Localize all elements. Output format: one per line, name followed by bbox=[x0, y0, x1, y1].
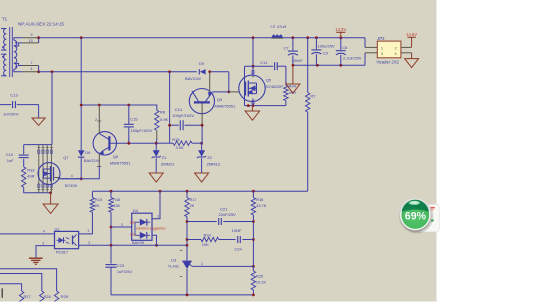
svg-text:C11: C11 bbox=[260, 60, 268, 65]
svg-text:R33: R33 bbox=[27, 167, 35, 172]
svg-text:2.2uF/25V: 2.2uF/25V bbox=[343, 55, 362, 60]
svg-text:100nF: 100nF bbox=[292, 58, 304, 63]
svg-text:T1: T1 bbox=[2, 17, 8, 22]
svg-text:9: 9 bbox=[31, 33, 33, 37]
svg-text:D9: D9 bbox=[199, 61, 205, 66]
svg-text:2: 2 bbox=[395, 46, 397, 50]
svg-text:3: 3 bbox=[121, 223, 123, 227]
svg-text:R13: R13 bbox=[172, 137, 180, 142]
svg-text:TL431: TL431 bbox=[168, 264, 180, 269]
svg-text:1nF: 1nF bbox=[7, 158, 14, 163]
svg-text:69%: 69% bbox=[405, 210, 427, 222]
svg-text:1nF/2KV: 1nF/2KV bbox=[3, 111, 19, 116]
svg-text:100u/25V: 100u/25V bbox=[318, 44, 335, 49]
svg-text:100pF/100V: 100pF/100V bbox=[131, 128, 153, 133]
svg-text:1: 1 bbox=[381, 46, 383, 50]
svg-text:10NF: 10NF bbox=[232, 228, 242, 233]
svg-text:Header 2X2: Header 2X2 bbox=[377, 60, 400, 65]
svg-text:10K: 10K bbox=[202, 242, 209, 247]
svg-text:BAV99: BAV99 bbox=[132, 240, 145, 245]
svg-text:L3: L3 bbox=[271, 24, 275, 29]
svg-text:Z2: Z2 bbox=[207, 155, 212, 160]
svg-text:C9: C9 bbox=[323, 50, 329, 55]
svg-text:R15: R15 bbox=[95, 197, 102, 202]
svg-text:C21: C21 bbox=[220, 207, 228, 212]
svg-text:3.0K: 3.0K bbox=[176, 145, 185, 150]
svg-text:2K: 2K bbox=[190, 203, 195, 208]
svg-text:2: 2 bbox=[201, 262, 203, 266]
svg-text:ZMM12: ZMM12 bbox=[207, 161, 221, 166]
svg-text:C23: C23 bbox=[117, 263, 125, 268]
svg-text:Q6: Q6 bbox=[113, 154, 119, 159]
svg-text:R24: R24 bbox=[204, 232, 212, 237]
svg-text:MMBT5551: MMBT5551 bbox=[215, 104, 236, 109]
svg-text:14.5V: 14.5V bbox=[335, 27, 346, 32]
svg-text:10.2K: 10.2K bbox=[256, 280, 267, 285]
svg-text:C24: C24 bbox=[235, 246, 243, 251]
svg-text:R18: R18 bbox=[256, 197, 263, 202]
svg-text:ZMM12: ZMM12 bbox=[161, 161, 175, 166]
svg-text:C10: C10 bbox=[6, 152, 14, 157]
svg-text:Si7450: Si7450 bbox=[65, 183, 78, 188]
svg-text:49R: 49R bbox=[27, 173, 34, 178]
svg-text:R25: R25 bbox=[256, 273, 263, 278]
svg-text:4: 4 bbox=[71, 174, 73, 178]
svg-text:MMBT5551: MMBT5551 bbox=[110, 160, 131, 165]
svg-text:7: 7 bbox=[31, 61, 33, 65]
svg-text:1: 1 bbox=[128, 138, 130, 142]
svg-text:PC817: PC817 bbox=[56, 250, 69, 255]
svg-text:R27: R27 bbox=[24, 294, 31, 299]
svg-text:D6: D6 bbox=[85, 150, 91, 155]
svg-text:SI7462DP: SI7462DP bbox=[265, 84, 284, 89]
svg-text:U1: U1 bbox=[55, 226, 61, 231]
svg-text:Q7: Q7 bbox=[63, 155, 69, 160]
svg-text:R28: R28 bbox=[44, 294, 51, 299]
svg-text:R7: R7 bbox=[310, 94, 316, 99]
svg-text:Z1: Z1 bbox=[162, 155, 167, 160]
svg-text:2K: 2K bbox=[95, 203, 100, 208]
svg-text:common suggestion: common suggestion bbox=[136, 227, 166, 231]
svg-text:C15: C15 bbox=[130, 117, 138, 122]
svg-text:5.9K: 5.9K bbox=[160, 117, 169, 122]
svg-text:C7: C7 bbox=[284, 45, 290, 50]
svg-text:47uH: 47uH bbox=[277, 24, 286, 29]
svg-text:R8: R8 bbox=[160, 110, 166, 115]
svg-text:R17: R17 bbox=[190, 197, 197, 202]
svg-text:NP:AUX-SEX 22:14:15: NP:AUX-SEX 22:14:15 bbox=[18, 22, 65, 27]
svg-text:4: 4 bbox=[43, 230, 45, 234]
svg-text:R16: R16 bbox=[113, 197, 120, 202]
svg-text:adc: adc bbox=[130, 220, 136, 224]
svg-text:2: 2 bbox=[88, 241, 90, 245]
svg-text:43.7K: 43.7K bbox=[256, 203, 267, 208]
svg-text:10K: 10K bbox=[113, 203, 120, 208]
svg-text:BAV21W: BAV21W bbox=[185, 76, 201, 81]
svg-text:Q9: Q9 bbox=[217, 97, 223, 102]
svg-text:3: 3 bbox=[381, 52, 383, 56]
svg-text:2: 2 bbox=[95, 118, 97, 122]
svg-text:U3: U3 bbox=[171, 257, 177, 262]
svg-text:1: 1 bbox=[87, 229, 89, 233]
svg-text:D4: D4 bbox=[133, 208, 139, 213]
svg-text:R29: R29 bbox=[61, 294, 68, 299]
svg-text:3: 3 bbox=[42, 241, 44, 245]
svg-text:C13: C13 bbox=[10, 93, 18, 98]
svg-text:Q5: Q5 bbox=[266, 78, 272, 83]
svg-text:10: 10 bbox=[29, 39, 33, 43]
svg-text:C14: C14 bbox=[175, 107, 183, 112]
svg-text:abs: abs bbox=[130, 233, 136, 237]
svg-text:C6: C6 bbox=[342, 45, 348, 50]
svg-text:2: 2 bbox=[157, 214, 159, 218]
svg-text:22nF/25V: 22nF/25V bbox=[219, 212, 237, 217]
svg-text:BAV21W: BAV21W bbox=[84, 158, 100, 163]
svg-text:100pF/100V: 100pF/100V bbox=[172, 113, 194, 118]
svg-text:14.5V: 14.5V bbox=[406, 32, 417, 37]
svg-text:4: 4 bbox=[395, 52, 397, 56]
svg-text:JP2: JP2 bbox=[377, 36, 385, 41]
svg-text:4: 4 bbox=[31, 67, 33, 71]
svg-text:1uF/25V: 1uF/25V bbox=[117, 269, 132, 274]
